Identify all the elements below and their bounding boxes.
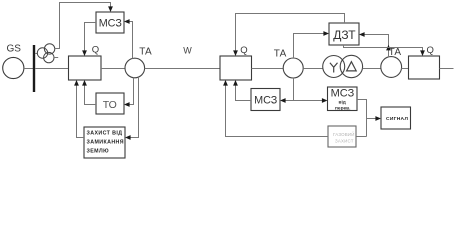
wire TA3 top to DZT right [365, 35, 389, 58]
wire TA2 top to DZT left [294, 34, 324, 59]
svg-text:Q: Q [240, 45, 247, 56]
generator GS [3, 44, 24, 79]
wire GS to bus [24, 68, 33, 70]
svg-text:ЗЕМЛЮ: ЗЕМЛЮ [87, 148, 110, 154]
svg-text:Q: Q [427, 45, 434, 56]
svg-text:від: від [339, 100, 346, 106]
svg-text:ЗАХИСТ: ЗАХИСТ [335, 138, 354, 143]
svg-text:ДЗТ: ДЗТ [333, 28, 356, 42]
wire Q1 to TA1 [101, 68, 125, 70]
earth-fault protection block [84, 127, 125, 158]
wire earth-fault to Q1 bottom [77, 86, 85, 138]
svg-text:GS: GS [7, 44, 22, 55]
wire TA3 to Q3 [401, 68, 408, 70]
wire TA2 to transformer [303, 68, 323, 70]
current transformer TA3 [381, 47, 402, 77]
wire TA1 bottom to TO right [130, 78, 134, 105]
wire TV to MC3-1 top [55, 3, 111, 49]
relay MC3-2 (МСЗ) [251, 89, 280, 111]
breaker Q2 [220, 45, 252, 80]
breaker Q3 [409, 45, 440, 79]
arrow into MC3-1 top [108, 6, 113, 12]
wire DZT top to Q2 top [236, 14, 345, 51]
svg-text:МСЗ: МСЗ [331, 87, 355, 99]
wire MC3-2 to Q2 bottom [236, 86, 252, 101]
wire gas right to junction [356, 136, 367, 138]
wire gas left to Q2 bottom [226, 86, 329, 137]
voltage transformer TV (3 circles) [35, 44, 58, 63]
arrow junction on TA3 riser [386, 45, 391, 51]
wire tee to MC3-3 left [294, 100, 323, 102]
bus bar [33, 45, 35, 92]
svg-text:ТА: ТА [389, 47, 402, 58]
arrow into Q1 bottom from TO [82, 80, 87, 86]
wire bus to Q1 [35, 68, 68, 70]
svg-text:W: W [183, 46, 192, 56]
svg-text:Q: Q [92, 44, 99, 55]
wire Q2 to TA2 [252, 68, 284, 70]
arrow into earth-fault right [125, 135, 131, 140]
arrow into TO right [124, 102, 130, 107]
svg-text:ТА: ТА [139, 47, 152, 58]
wire DZT bottom to Q3 top [344, 45, 423, 51]
current transformer TA1 [125, 47, 152, 78]
wire MC3-3 right to signal junction [357, 100, 367, 137]
wire MC3-1 to Q1 top [85, 23, 97, 51]
gas protection block [328, 126, 356, 147]
signal block (СИГНАЛ) [381, 107, 411, 129]
svg-text:перев.: перев. [335, 106, 350, 111]
wire TA2 bottom tee [293, 78, 295, 101]
arrow into Q2 bottom from gas [223, 80, 228, 86]
arrow into Q1 bottom from earth-fault [74, 80, 79, 86]
arrow into Q3 top [420, 50, 425, 56]
svg-text:ЗАМИКАННЯ: ЗАМИКАННЯ [87, 139, 124, 145]
wire junction to signal [367, 118, 376, 120]
arrow into MC3-1 right [124, 19, 130, 24]
arrow into Q1 top [82, 50, 87, 56]
svg-text:ТО: ТО [103, 99, 117, 111]
arrow into Q2 bottom from MC3-2 [233, 80, 238, 86]
wire TA1 top to MC3-1 right [130, 22, 133, 59]
arrow into MC3-3 left [322, 98, 328, 103]
breaker Q1 [69, 44, 102, 80]
wire TO to Q1 bottom [85, 86, 97, 105]
relay DZT (ДЗТ) [329, 23, 359, 45]
wire transformer to TA3 [363, 68, 381, 70]
svg-text:ЗАХИСТ ВІД: ЗАХИСТ ВІД [87, 130, 123, 136]
arrow into Q2 top [233, 50, 238, 56]
transformer T (Y/D) [323, 55, 363, 77]
wire tee to MC3-2 right [286, 100, 294, 102]
svg-text:ГАЗОВИЙ: ГАЗОВИЙ [333, 132, 355, 137]
line W to Q2 [145, 46, 220, 69]
arrow into MC3-2 right [280, 98, 286, 103]
arrow into DZT right [359, 32, 365, 37]
svg-text:МСЗ: МСЗ [99, 18, 122, 30]
arrow into DZT left [323, 31, 329, 36]
arrow into signal left [375, 116, 381, 121]
wire TA1 bottom to earth-fault right [131, 77, 139, 138]
current transformer TA2 [274, 49, 303, 79]
svg-text:ТА: ТА [274, 49, 287, 60]
relay TO (токова відсічка) [96, 93, 124, 114]
relay MC3-1 (МСЗ) [96, 12, 124, 33]
svg-text:МСЗ: МСЗ [254, 95, 277, 107]
relay MC3-3 overload (МСЗ від перев.) [328, 87, 358, 111]
svg-text:СИГНАЛ: СИГНАЛ [386, 116, 408, 122]
wire Q3 right [440, 68, 454, 70]
